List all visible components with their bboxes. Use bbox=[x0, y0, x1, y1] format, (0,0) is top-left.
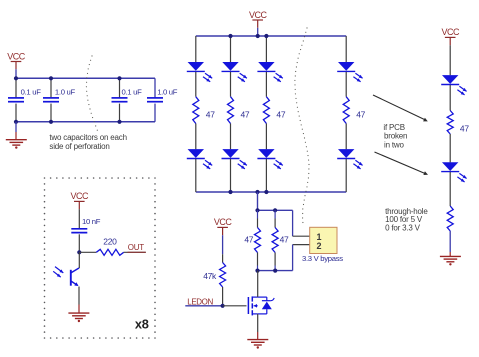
wire node B to drain bbox=[257, 271, 259, 298]
wire node A to R6 top bbox=[274, 210, 276, 218]
svg-text:broken: broken bbox=[384, 131, 407, 140]
capacitor C2 1.0 uF bbox=[43, 97, 59, 99]
ground (cap section) bbox=[6, 139, 27, 141]
connector J1 3.3V bypass (yellow box) bbox=[310, 227, 337, 253]
wire column 4 LED to resistor bbox=[345, 72, 347, 97]
junction top bus at C2 bbox=[49, 76, 53, 80]
svg-text:VCC: VCC bbox=[441, 27, 460, 37]
LED D1a bbox=[188, 62, 204, 71]
wire bottom bus (cap section) bbox=[16, 121, 155, 123]
svg-text:OUT: OUT bbox=[128, 243, 144, 252]
phototransistor Q2 bbox=[70, 270, 72, 286]
resistor R3 47 bbox=[263, 97, 269, 124]
LED D4a bbox=[338, 62, 354, 71]
junction top bus at VCC bbox=[256, 34, 260, 38]
junction bottom bus at down-wire bbox=[255, 190, 259, 194]
wire column 4 bus to LED bbox=[345, 36, 347, 62]
resistor R8 220 bbox=[96, 249, 123, 255]
wire cap4 bottom lead bbox=[154, 104, 156, 122]
LED D2b bbox=[222, 149, 238, 158]
wire column 3 bus to LED bbox=[265, 36, 267, 62]
svg-text:47: 47 bbox=[280, 234, 289, 244]
wire array bottom bus bbox=[196, 191, 346, 193]
wire R8 to OUT bbox=[124, 251, 146, 253]
junction node B bbox=[255, 269, 259, 273]
wire R10 to ground bbox=[449, 231, 451, 252]
wire column 1 LED to bottom bus bbox=[195, 159, 197, 192]
resistor R7 47k bbox=[220, 263, 226, 288]
svg-text:VCC: VCC bbox=[214, 217, 233, 227]
svg-text:1.0 uF: 1.0 uF bbox=[55, 87, 76, 96]
svg-text:x8: x8 bbox=[135, 317, 149, 332]
svg-text:LEDON: LEDON bbox=[187, 297, 213, 306]
dotted border (x8 sensor cell) bbox=[44, 177, 46, 179]
junction LEDON at 47k bbox=[221, 304, 225, 308]
wire LED to R9 bbox=[449, 85, 451, 111]
svg-text:in two: in two bbox=[384, 141, 404, 150]
wire cap4 top lead bbox=[154, 78, 156, 98]
wire 47k to LEDON node bbox=[222, 287, 224, 306]
wire cap3 top lead bbox=[119, 78, 121, 98]
svg-text:two capacitors on each: two capacitors on each bbox=[49, 133, 126, 142]
capacitor C3 0.1 uF bbox=[112, 97, 128, 99]
wire column 1 resistor to LED bbox=[195, 124, 197, 150]
LED D9b bbox=[442, 162, 458, 171]
wire column 2 LED to resistor bbox=[230, 72, 232, 97]
wire column 3 LED to bottom bus bbox=[265, 159, 267, 192]
wire column 3 LED to resistor bbox=[265, 72, 267, 97]
arrow: broken PCB upper bbox=[373, 95, 425, 120]
svg-text:VCC: VCC bbox=[249, 10, 268, 20]
svg-text:VCC: VCC bbox=[71, 191, 90, 201]
wire column 1 LED to resistor bbox=[195, 72, 197, 97]
LED D1b bbox=[188, 149, 204, 158]
wire VCC to LED bbox=[449, 45, 451, 75]
perforation dotted line (cap section) bbox=[91, 55, 92, 56]
wire node B horizontal bbox=[258, 270, 293, 272]
wire R5 bottom to node B bbox=[257, 253, 259, 266]
wire VCC to 47k bbox=[222, 235, 224, 254]
capacitor C1 0.1 uF bbox=[8, 97, 24, 99]
capacitor C5 10 nF bbox=[71, 228, 87, 230]
resistor R4 47 bbox=[343, 97, 349, 124]
svg-text:47: 47 bbox=[356, 109, 365, 119]
wire node C to R8 bbox=[79, 251, 96, 253]
ground (sensor cell) bbox=[68, 312, 89, 314]
wire node A to bypass pin 1 (vertical) bbox=[292, 210, 294, 236]
wire node C to phototransistor collector bbox=[78, 252, 80, 268]
arrow: broken PCB lower bbox=[375, 152, 426, 174]
junction top bus col2 bbox=[228, 34, 232, 38]
resistor R9 47 bbox=[447, 111, 453, 135]
junction bottom bus at C2 bbox=[49, 120, 53, 124]
wire column 2 resistor to LED bbox=[230, 124, 232, 150]
wire column 2 LED to bottom bus bbox=[230, 159, 232, 192]
wire VCC to C5 bbox=[78, 209, 80, 228]
resistor R2 47 bbox=[228, 97, 234, 124]
LED D3b bbox=[258, 149, 274, 158]
svg-text:220: 220 bbox=[103, 236, 117, 246]
junction bottom bus col3 bbox=[264, 190, 268, 194]
svg-text:0.1 uF: 0.1 uF bbox=[122, 87, 143, 96]
perforation dotted line (LED array) bbox=[306, 27, 307, 28]
svg-text:3.3 V bypass: 3.3 V bypass bbox=[302, 254, 343, 263]
wire LED to R10 bbox=[449, 172, 451, 206]
resistor R6 47 (parallel) bbox=[272, 228, 278, 253]
wire emitter to ground bbox=[78, 287, 80, 305]
junction node C bbox=[77, 250, 81, 254]
svg-text:47: 47 bbox=[460, 124, 469, 134]
wire VCC to array top bus bbox=[257, 28, 259, 36]
wire VCC to top bus bbox=[15, 69, 17, 78]
wire bottom bus down to node A bbox=[257, 192, 259, 210]
junction bottom bus col2 bbox=[228, 190, 232, 194]
wire source to ground bbox=[257, 314, 259, 332]
LED D2a bbox=[222, 62, 238, 71]
resistor R1 47 bbox=[193, 97, 199, 124]
wire column 3 resistor to LED bbox=[265, 124, 267, 150]
wire LEDON bbox=[185, 305, 222, 307]
LED D4b bbox=[338, 149, 354, 158]
resistor R5 47 (parallel) bbox=[255, 228, 261, 253]
svg-text:47k: 47k bbox=[203, 271, 217, 281]
wire R6 bottom to node B bbox=[274, 253, 276, 266]
junction top bus col3 bbox=[264, 34, 268, 38]
LED D3a bbox=[258, 62, 274, 71]
resistor R10 (through-hole) bbox=[447, 206, 453, 231]
wire column 4 LED to bottom bus bbox=[345, 159, 347, 192]
wire column 2 bus to LED bbox=[230, 36, 232, 62]
light arrows into Q2 bbox=[55, 267, 63, 273]
wire bypass pin 2 lead bbox=[293, 244, 310, 246]
junction bottom bus at C3 bbox=[117, 120, 121, 124]
junction top bus at C1 bbox=[14, 76, 18, 80]
svg-text:2: 2 bbox=[316, 241, 321, 251]
wire C5 to node C bbox=[78, 234, 80, 252]
junction bottom bus at C1 bbox=[14, 120, 18, 124]
wire top bus (cap section) bbox=[16, 77, 155, 79]
wire bypass pin 1 lead bbox=[293, 235, 310, 237]
svg-text:47: 47 bbox=[244, 234, 253, 244]
wire cap2 bottom lead bbox=[50, 104, 52, 122]
svg-text:47: 47 bbox=[276, 109, 285, 119]
svg-text:1.0 uF: 1.0 uF bbox=[157, 87, 178, 96]
wire cap3 bottom lead bbox=[119, 104, 121, 122]
wire bypass pin 2 to node B (vertical) bbox=[292, 245, 294, 271]
svg-text:side of perforation: side of perforation bbox=[49, 142, 109, 151]
wire cap2 top lead bbox=[50, 78, 52, 98]
junction node B at R6 bbox=[273, 269, 277, 273]
LED D9a bbox=[442, 75, 458, 84]
svg-text:0.1 uF: 0.1 uF bbox=[21, 87, 42, 96]
svg-text:47: 47 bbox=[206, 109, 215, 119]
wire column 4 resistor to LED bbox=[345, 124, 347, 150]
junction top bus at C3 bbox=[117, 76, 121, 80]
svg-text:10 nF: 10 nF bbox=[82, 217, 101, 226]
wire column 1 bus to LED bbox=[195, 36, 197, 62]
wire node A to R5 top bbox=[257, 210, 259, 218]
ground (right column) bbox=[440, 255, 461, 257]
svg-text:0 for 3.3 V: 0 for 3.3 V bbox=[385, 223, 421, 232]
svg-text:VCC: VCC bbox=[7, 51, 26, 61]
transistor Q1 N-MOSFET bbox=[247, 297, 249, 314]
wire bottom bus to ground bbox=[15, 122, 17, 132]
wire cap1 top lead bbox=[15, 78, 17, 98]
wire R9 to LED bbox=[449, 134, 451, 162]
wire cap1 bottom lead bbox=[15, 104, 17, 122]
wire array top bus bbox=[196, 35, 346, 37]
junction node A bbox=[255, 208, 259, 212]
junction node A at R6 bbox=[273, 208, 277, 212]
capacitor C4 1.0 uF bbox=[147, 97, 163, 99]
ground (MOSFET source) bbox=[247, 339, 268, 341]
wire node A horizontal bbox=[258, 209, 293, 211]
svg-text:47: 47 bbox=[241, 109, 250, 119]
wire LEDON to gate bbox=[223, 305, 247, 307]
